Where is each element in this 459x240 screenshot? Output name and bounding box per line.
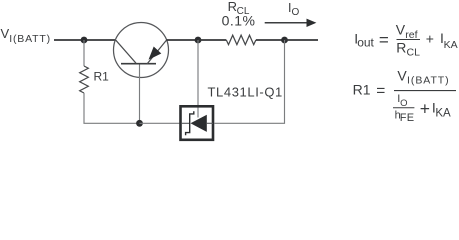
equation 1: I_out = V_ref/R_CL + I_KA — [354, 22, 457, 59]
svg-text:O: O — [400, 98, 407, 109]
svg-text:I(BATT): I(BATT) — [407, 75, 450, 87]
svg-text:=: = — [376, 82, 385, 99]
svg-text:out: out — [357, 36, 374, 50]
equation 2: R1 = V_I(BATT) / (I_O/h_FE + I_KA) — [353, 67, 456, 124]
svg-text:0.1%: 0.1% — [222, 13, 256, 29]
wire node A to transistor left terminal — [84, 39, 116, 41]
junction dot base node on bottom rail — [136, 120, 143, 127]
svg-text:R1: R1 — [353, 81, 371, 97]
wire input from V_I(BATT) to node A — [54, 39, 84, 41]
svg-text:TL431LI-Q1: TL431LI-Q1 — [208, 85, 283, 100]
resistor R1 — [80, 66, 89, 93]
node A junction dot — [81, 37, 88, 44]
U1 anode stub inside box — [207, 122, 213, 124]
arrow I_O current direction — [265, 19, 317, 27]
label I_O — [288, 1, 300, 18]
svg-text:=: = — [379, 31, 389, 50]
svg-text:V: V — [396, 22, 406, 38]
transistor Q1 base lead down — [139, 65, 141, 124]
wire R1 bottom to bottom rail — [84, 93, 140, 123]
U1 zener bar — [186, 111, 194, 135]
svg-text:KA: KA — [444, 39, 458, 51]
label V_I(BATT) — [1, 26, 51, 45]
transistor Q1 emitter arrowhead (PNP) — [149, 47, 162, 60]
wire node A down to R1 — [83, 40, 85, 66]
transistor Q1 base bar — [121, 63, 156, 65]
shunt regulator U1 TL431LI-Q1 box — [181, 106, 214, 140]
svg-text:V: V — [1, 26, 10, 41]
wire R_CL to node C — [256, 39, 285, 41]
transistor Q1 circle — [114, 23, 169, 78]
transistor Q1 collector diagonal — [116, 40, 136, 63]
U1 cathode stub inside box — [182, 122, 190, 124]
resistor R_CL — [226, 35, 256, 44]
wire node C to output — [285, 39, 319, 41]
U1 triangle — [191, 115, 207, 132]
svg-text:FE: FE — [400, 112, 414, 124]
wire node B to R_CL — [198, 39, 226, 41]
svg-text:I(BATT): I(BATT) — [9, 33, 51, 45]
node C junction dot — [281, 37, 288, 44]
svg-text:R: R — [396, 39, 406, 55]
svg-text:+: + — [426, 30, 434, 46]
label R_CL — [228, 0, 250, 17]
svg-text:R1: R1 — [94, 70, 110, 84]
svg-text:+: + — [420, 99, 430, 119]
svg-text:KA: KA — [435, 108, 451, 120]
wire node B down to U1 reference — [197, 40, 199, 118]
node B junction dot — [195, 37, 202, 44]
wire node C down to U1 anode — [215, 40, 285, 123]
transistor Q1 emitter diagonal — [147, 40, 166, 64]
svg-text:V: V — [397, 67, 407, 83]
svg-text:O: O — [292, 7, 300, 18]
svg-text:CL: CL — [407, 46, 421, 58]
wire transistor right terminal to node B — [166, 39, 198, 41]
wire bottom rail to U1 cathode — [140, 122, 181, 124]
